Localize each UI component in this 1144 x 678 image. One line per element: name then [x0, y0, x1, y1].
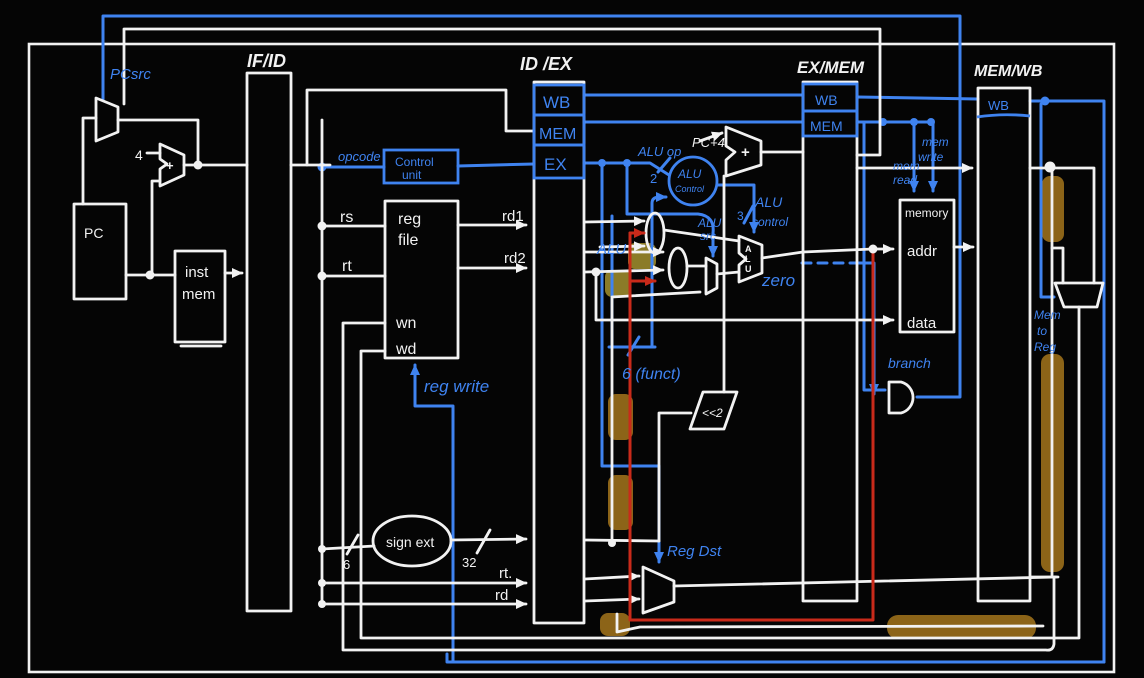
- wire EX control out of ID/EX: [584, 163, 669, 175]
- wire jog into MemtoReg mux: [1052, 248, 1063, 283]
- svg-text:memory: memory: [905, 206, 948, 220]
- wire WB MEM/WB to right rail: [1030, 101, 1104, 662]
- wire control unit to ID/EX EX box: [458, 164, 534, 166]
- svg-text:WB: WB: [815, 92, 838, 108]
- wire instr to sign ext: [322, 546, 374, 549]
- wire mux A out to ALU: [664, 230, 739, 241]
- labels blue: [110, 66, 1061, 560]
- highlight blob near ALU mux B: [605, 270, 631, 297]
- wire instruction out of IF/ID: [291, 164, 330, 167]
- wire write data return to wd: [361, 307, 1079, 638]
- wire funct field second line: [611, 216, 614, 347]
- mux ALU input A (forward mux): [646, 213, 664, 253]
- svg-text:file: file: [398, 232, 419, 249]
- svg-text:opcode: opcode: [338, 149, 381, 164]
- register IF/ID: [247, 73, 291, 611]
- svg-text:write: write: [918, 150, 944, 164]
- svg-text:to: to: [1037, 324, 1047, 338]
- box WB of ID/EX: [534, 85, 584, 115]
- box MEM of ID/EX: [534, 115, 584, 145]
- svg-text:ALU: ALU: [596, 241, 626, 258]
- svg-text:PC: PC: [84, 225, 103, 241]
- wire rd1 out of ID/EX to mux A: [585, 221, 644, 222]
- wire rd1 to ID/EX: [458, 224, 526, 227]
- register EX/MEM: [803, 82, 857, 601]
- svg-text:rd: rd: [495, 587, 508, 604]
- wire ALUsrc mux to ALU: [717, 272, 739, 274]
- svg-text:addr: addr: [907, 243, 937, 260]
- svg-text:rt.: rt.: [499, 565, 512, 582]
- highlight bar ID/EX lower 1: [608, 394, 633, 440]
- wire rd out of ID/EX to RegDst mux: [585, 599, 639, 601]
- wire zero flag to AND: [856, 263, 874, 394]
- svg-text:read: read: [893, 173, 917, 187]
- svg-text:L: L: [745, 254, 751, 264]
- wire rt to reg file: [322, 275, 385, 278]
- wire write register number return to wn: [343, 323, 1054, 650]
- svg-text:rd1: rd1: [502, 208, 524, 225]
- wire WB forward into mux A: [600, 246, 644, 247]
- svg-text:Reg Dst: Reg Dst: [667, 543, 722, 560]
- svg-text:6 (funct): 6 (funct): [622, 366, 681, 383]
- wire branch adder out to EX/MEM: [761, 151, 803, 154]
- highlight blob bottom of ID/EX: [600, 613, 630, 636]
- wire sign ext up to ALU src mux: [612, 292, 700, 543]
- stub near MEM/WB bottom: [1031, 576, 1058, 579]
- svg-text:EX/MEM: EX/MEM: [797, 58, 865, 77]
- wire rd2 out of ID/EX to mux B: [585, 251, 663, 254]
- wire inst mem bottom stub: [181, 345, 221, 348]
- wire RegDst control: [602, 163, 659, 562]
- svg-text:Reg: Reg: [1034, 340, 1056, 354]
- svg-text:rt: rt: [342, 258, 352, 275]
- svg-text:6: 6: [343, 557, 350, 572]
- red vertical from mem addr: [630, 233, 873, 620]
- svg-text:unit: unit: [402, 168, 422, 182]
- wire zero flag dashed: [802, 262, 856, 265]
- wire MEM/WB data out right: [1030, 168, 1094, 283]
- wire WB ID/EX to EX/MEM: [584, 94, 803, 97]
- svg-text:ALU: ALU: [677, 167, 702, 181]
- register PC: [74, 204, 126, 299]
- wire PCsrc loop (branch AND output to PC mux select): [103, 16, 960, 397]
- svg-text:inst: inst: [185, 264, 209, 281]
- svg-text:reg: reg: [398, 211, 421, 228]
- memory data memory: [900, 200, 954, 332]
- svg-text:mem: mem: [922, 135, 949, 149]
- svg-text:U: U: [745, 264, 752, 274]
- wire rd low to ID/EX: [322, 603, 526, 606]
- svg-text:4: 4: [135, 147, 143, 163]
- adder PC+4: [160, 144, 184, 186]
- mux MemtoReg: [1055, 283, 1103, 307]
- wire store data to memory: [596, 272, 893, 320]
- svg-text:WB: WB: [988, 98, 1009, 113]
- wire MEM/WB value down rail: [1051, 167, 1054, 575]
- box MEM of EX/MEM: [803, 111, 857, 136]
- svg-text:zero: zero: [761, 271, 795, 290]
- mux PCsrc: [96, 98, 118, 141]
- wire MemtoReg select: [1041, 104, 1054, 297]
- wire rd2 to ID/EX: [458, 267, 526, 270]
- wire reg write up to reg file: [415, 365, 453, 661]
- svg-text:Mem: Mem: [1034, 308, 1061, 322]
- svg-text:IF/ID: IF/ID: [247, 51, 286, 71]
- slash 16: [347, 535, 358, 554]
- svg-text:ALU: ALU: [697, 216, 722, 230]
- svg-text:A: A: [745, 244, 752, 254]
- wire branch target return to PC mux: [124, 29, 880, 155]
- shifter shift left 2: [690, 392, 737, 429]
- svg-text:3: 3: [737, 209, 744, 223]
- wire register number mid rail: [617, 614, 1043, 632]
- mux ALU input B (forward mux): [669, 248, 687, 288]
- wire sign ext out to ID/EX: [451, 539, 526, 540]
- slash 32: [477, 530, 490, 553]
- highlight right bar upper: [1042, 176, 1064, 242]
- junction dots white: [146, 161, 1056, 609]
- highlighter marks (tan): [600, 176, 1064, 639]
- wire MEM control stub right: [857, 121, 933, 124]
- highlight long bottom bar: [887, 615, 1036, 639]
- labels white: [84, 51, 1042, 604]
- red arrow into mux B: [631, 280, 655, 283]
- svg-text:mem: mem: [893, 159, 920, 173]
- svg-text:src: src: [700, 229, 716, 243]
- svg-text:ALU: ALU: [754, 194, 783, 210]
- svg-text:ID /EX: ID /EX: [520, 54, 573, 74]
- wire inst mem to IF/ID: [225, 272, 242, 275]
- oval sign extend: [373, 516, 451, 566]
- svg-text:+: +: [166, 158, 174, 173]
- wire rt out of ID/EX to RegDst mux: [585, 576, 639, 579]
- wire RegWrite bottom rail: [447, 654, 1104, 662]
- wire adder out up to mux: [118, 120, 198, 165]
- svg-text:control: control: [752, 215, 788, 229]
- svg-text:32: 32: [462, 555, 476, 570]
- gate AND branch: [889, 382, 913, 413]
- wire MEM ID/EX to EX/MEM: [584, 121, 803, 124]
- register ID/EX: [534, 82, 584, 623]
- wire shift out to branch adder: [723, 176, 726, 392]
- box WB of EX/MEM: [803, 84, 857, 111]
- alu main: [739, 236, 762, 282]
- register MEM/WB: [978, 88, 1030, 601]
- svg-text:<<2: <<2: [702, 406, 723, 420]
- wire funct field to ALU control: [652, 197, 666, 347]
- wire ALUsrc control: [627, 163, 713, 256]
- svg-text:branch: branch: [888, 355, 931, 371]
- box EX of ID/EX: [534, 145, 584, 178]
- wire constant 4: [147, 152, 160, 155]
- wire adder out to IF/ID: [184, 164, 247, 167]
- svg-text:PC+4: PC+4: [692, 135, 725, 150]
- svg-text:MEM: MEM: [539, 126, 576, 143]
- svg-text:sign ext: sign ext: [386, 534, 434, 550]
- svg-text:WB: WB: [543, 93, 570, 112]
- circle ALU control: [669, 157, 717, 205]
- wire forward red path: [630, 233, 873, 620]
- svg-text:wn: wn: [395, 315, 416, 332]
- wire PC+4 jog to ID/EX MEM row: [307, 90, 534, 165]
- wire RegDst mux output: [674, 577, 1056, 586]
- svg-text:Control: Control: [395, 155, 434, 169]
- wire mem addr out to MEM/WB: [954, 246, 973, 249]
- wire EX/MEM upper pass to MEM/WB: [857, 167, 972, 170]
- svg-text:reg write: reg write: [424, 377, 489, 396]
- svg-text:rd2: rd2: [504, 250, 526, 267]
- box control unit: [384, 150, 458, 183]
- svg-text:MEM/WB: MEM/WB: [974, 63, 1042, 80]
- wire PC+4 into branch adder: [700, 133, 722, 141]
- highlight blob near ALU mux A: [628, 243, 656, 269]
- svg-text:Control: Control: [675, 184, 705, 194]
- wire ALU result to memory addr: [762, 249, 893, 258]
- slash 2 on ALU op: [658, 158, 670, 172]
- svg-text:mem: mem: [182, 286, 215, 303]
- blue stage boxes: [384, 84, 1030, 205]
- highlight right bar lower: [1041, 354, 1064, 572]
- wire sign ext out to shift and ALU mux: [585, 540, 659, 541]
- wire ALU control to ALU: [717, 185, 754, 232]
- svg-text:ALU op: ALU op: [637, 144, 681, 159]
- svg-text:rs: rs: [340, 209, 353, 226]
- wire PC to inst mem: [126, 274, 175, 277]
- wire branch control to AND gate: [864, 122, 885, 390]
- wire mem read down: [913, 122, 916, 191]
- svg-text:MEM: MEM: [810, 118, 843, 134]
- slash 3 on ALU control: [744, 206, 753, 223]
- svg-text:PCsrc: PCsrc: [110, 66, 151, 83]
- wire mux B out to ALU src mux: [687, 265, 706, 268]
- mux RegDst: [643, 567, 674, 613]
- mux ALUsrc: [706, 258, 717, 294]
- svg-text:+: +: [741, 144, 750, 161]
- red arrow into mux A: [630, 232, 644, 235]
- memory inst mem: [175, 251, 225, 342]
- svg-text:data: data: [907, 315, 937, 332]
- wire rs to reg file: [322, 225, 385, 228]
- junction dots blue: [318, 97, 1050, 172]
- wire instruction vertical bus: [321, 120, 324, 604]
- wire rt low to ID/EX: [322, 582, 526, 585]
- adder branch: [726, 127, 761, 176]
- wire opcode to control unit: [322, 166, 384, 169]
- funct bus slash: [628, 337, 639, 355]
- wire mux to PC: [83, 118, 96, 204]
- wire to shift left 2: [659, 413, 691, 541]
- svg-text:wd: wd: [395, 341, 416, 358]
- wire rt value to mux B: [585, 270, 663, 272]
- highlight bar ID/EX lower 2: [608, 475, 633, 530]
- svg-text:EX: EX: [544, 155, 567, 174]
- box WB of MEM/WB (underline): [977, 115, 1030, 117]
- svg-text:2: 2: [650, 171, 657, 186]
- wire WB EX/MEM to MEM/WB: [857, 97, 978, 99]
- wire PC value up to adder: [152, 181, 160, 275]
- funct bus bracket: [609, 346, 655, 349]
- register file: [385, 201, 458, 358]
- wire mem write down: [932, 124, 935, 191]
